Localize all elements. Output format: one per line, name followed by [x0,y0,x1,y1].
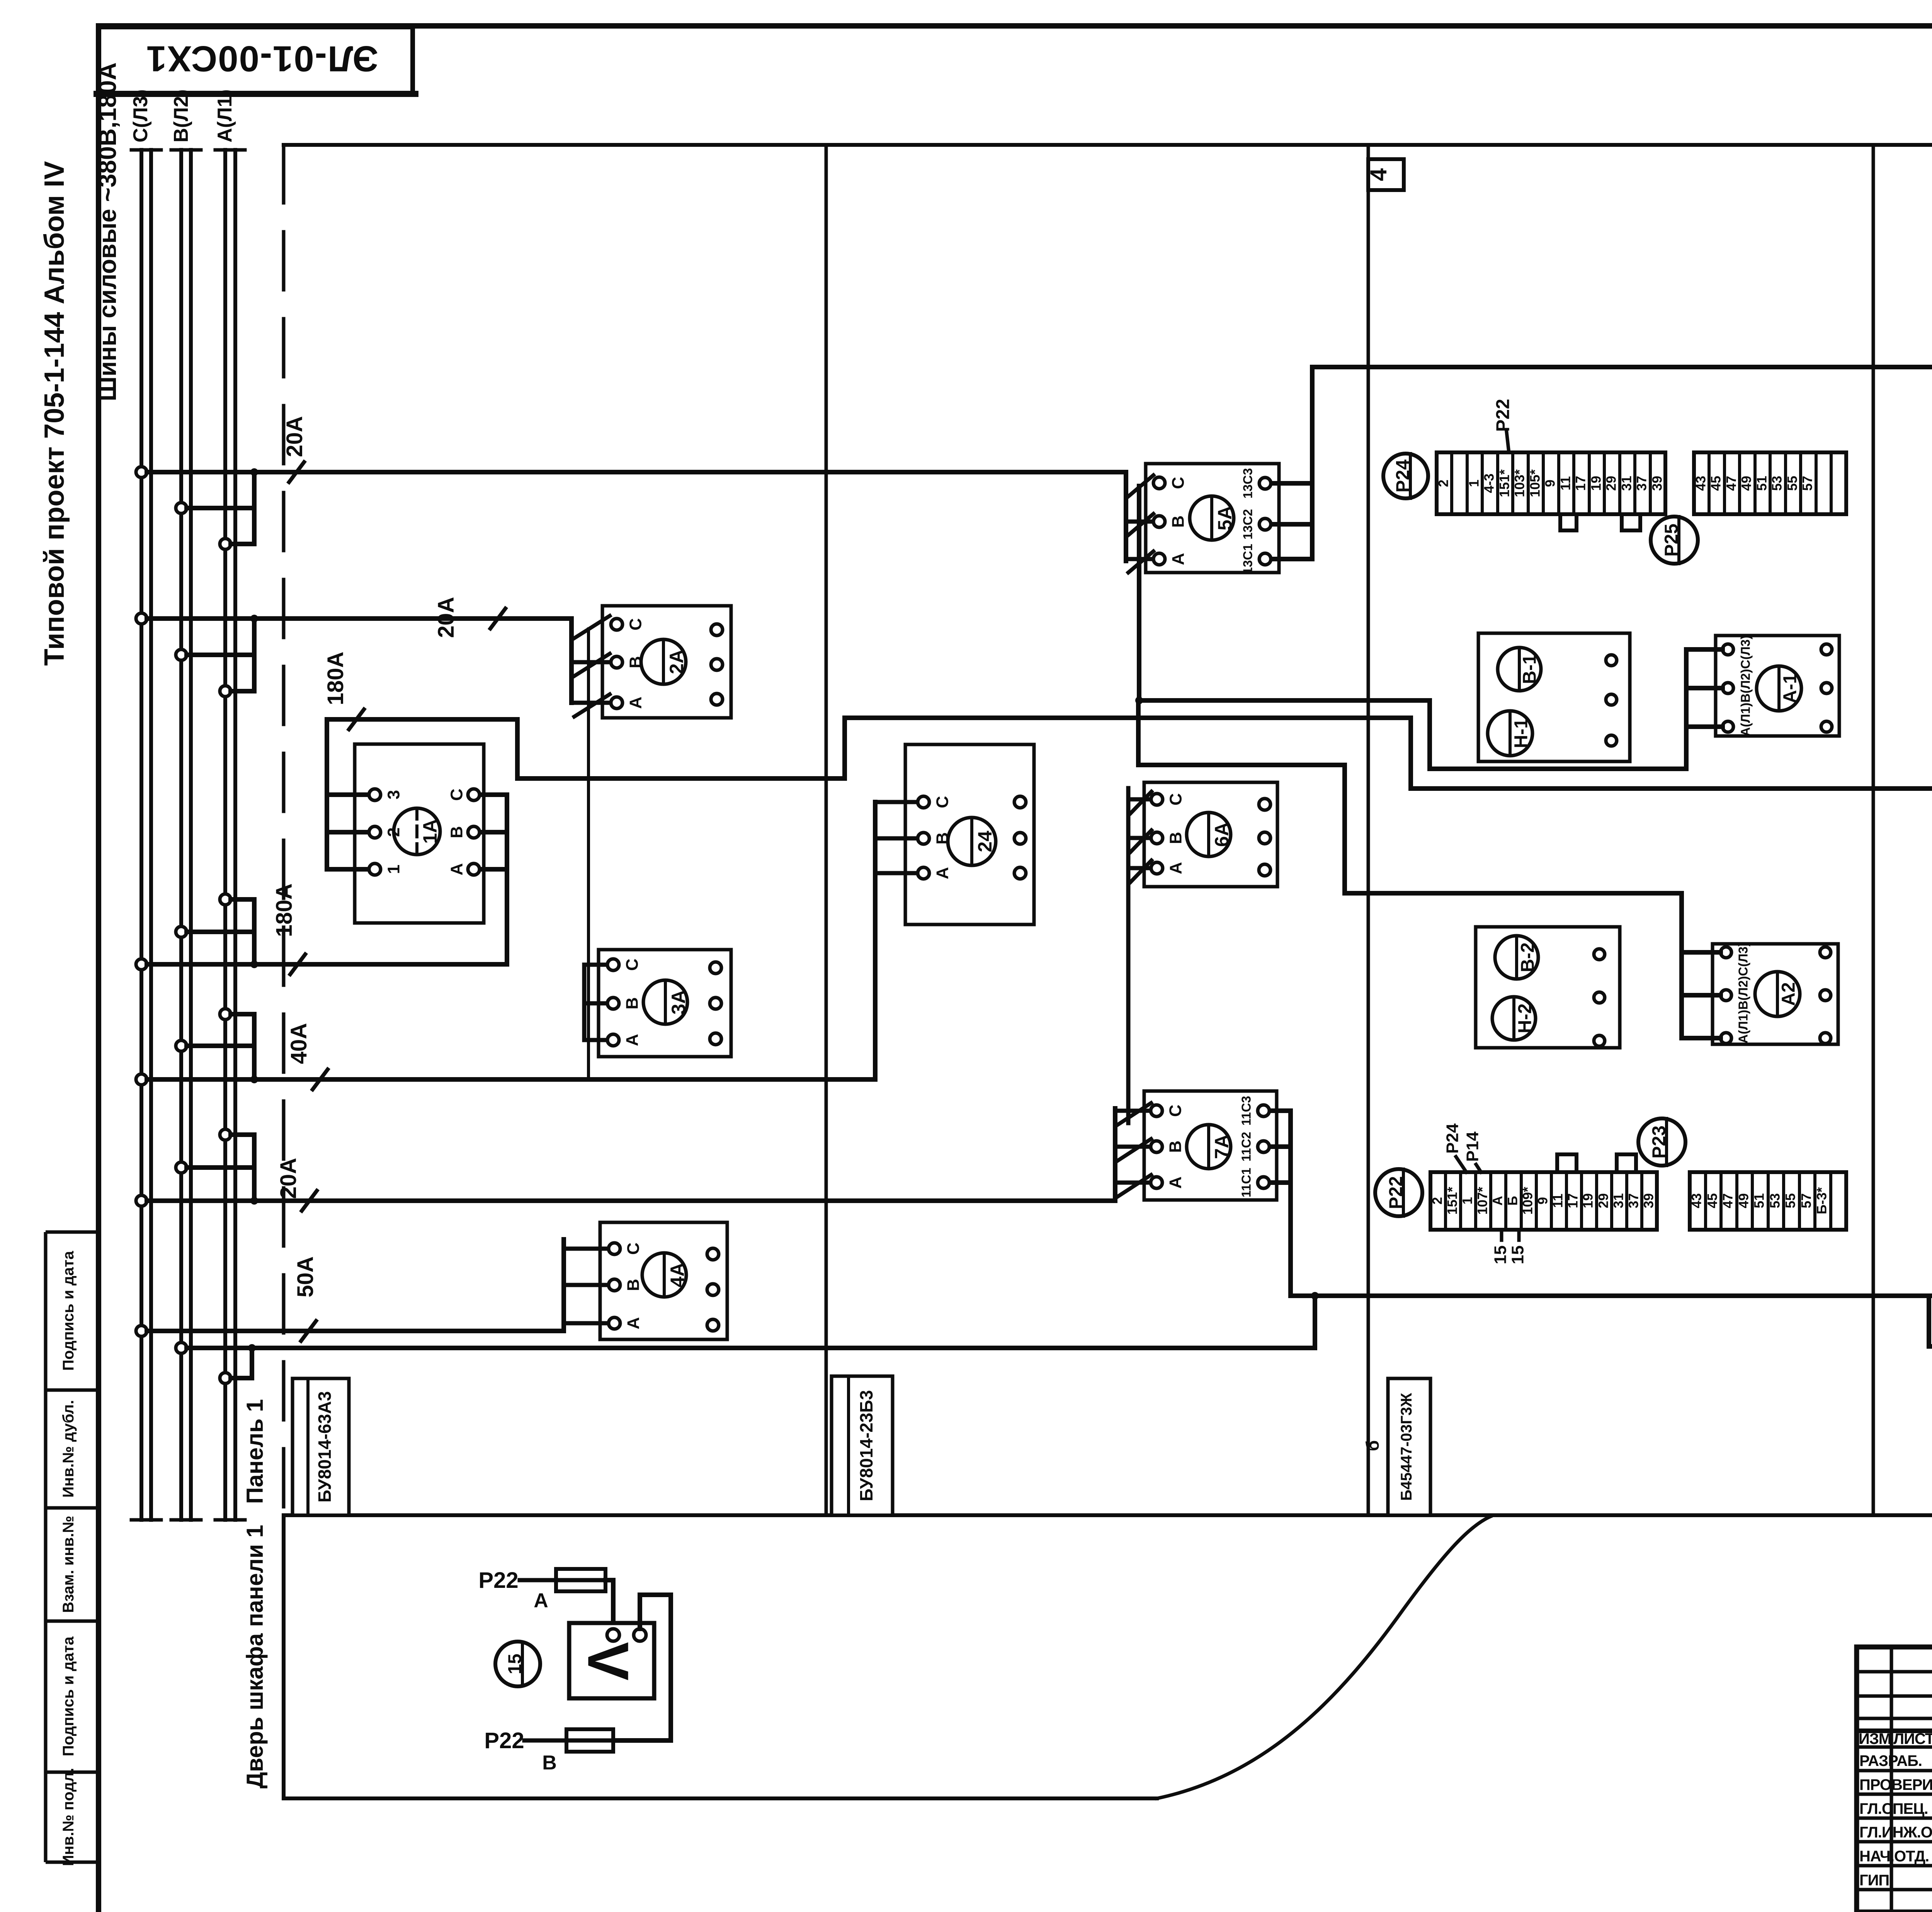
breaker 1А [355,744,484,923]
svg-text:151*: 151* [1497,469,1512,497]
svg-text:15: 15 [505,1654,526,1674]
svg-text:Р25: Р25 [1662,523,1682,556]
strip mounting tabs below strip row 1 [1560,514,1577,530]
svg-text:Р22: Р22 [484,1728,524,1753]
svg-text:20А: 20А [282,416,307,457]
svg-text:53: 53 [1767,1193,1782,1208]
dimension tick and label 20А (feeder 2) [489,607,507,630]
svg-text:А: А [534,1589,548,1612]
fuse Р22-В (door) [524,1729,613,1752]
panel enclosure outline (top, right, bottom solid; left dashed) [284,145,1932,1515]
svg-text:Р24: Р24 [1443,1123,1462,1154]
marker box 4 at divider 2 [1368,159,1404,190]
svg-text:1: 1 [1466,479,1481,487]
svg-text:20А: 20А [276,1158,301,1199]
wire: stubs 1А right terminals to 180А feeder riser [480,795,507,869]
svg-text:С: С [1169,477,1188,489]
tap group 3 (feeder 180А to 1А) [136,894,258,970]
svg-text:Типовой проект 705-1-144 Ал: Типовой проект 705-1-144 Альбом IV [39,161,70,666]
dimension tick and label 180А (1А output wire) [348,708,365,731]
svg-text:51: 51 [1752,1193,1767,1208]
wire: fuse А to voltmeter terminal [611,1580,616,1630]
strip row 2 cell numbers [1430,1187,1829,1215]
svg-text:С: С [1167,793,1185,806]
svg-text:Б: Б [1505,1196,1520,1205]
svg-text:105*: 105* [1527,469,1543,497]
svg-text:А(Л1)В(Л2)С(Л3): А(Л1)В(Л2)С(Л3) [1736,942,1750,1044]
svg-text:В: В [1166,1140,1185,1153]
breaker 4А [564,1222,727,1339]
balloon Р22 (lower strip) [1375,1169,1422,1216]
wire: 7А output stubs and collector [1270,1111,1291,1296]
svg-text:55: 55 [1785,476,1800,491]
svg-text:Р22: Р22 [1386,1176,1406,1209]
wire: net 11С run to terminal block 11С1-11С3 [1291,1293,1932,1298]
svg-text:НАЧ.ОТД.: НАЧ.ОТД. [1859,1848,1929,1865]
svg-text:45: 45 [1705,1193,1720,1208]
wire: feeder 40А from bus to breaker 2Д [147,802,875,1079]
tap group 1 (feeder 20А to 5А): circles on buses [136,467,258,549]
TITLE BLOCK [1857,1647,1932,1912]
svg-text:15: 15 [1491,1246,1510,1264]
svg-text:Р14: Р14 [1463,1131,1482,1162]
svg-text:19: 19 [1580,1193,1595,1208]
svg-text:40А: 40А [286,1023,311,1064]
label box Б45447-03Г3Ж [1388,1378,1430,1515]
svg-text:А: А [624,1317,643,1329]
dimension tick and label 20А (feeder 5) [301,1189,318,1212]
breaker 2А [571,606,731,718]
svg-text:Взам. инв.№: Взам. инв.№ [60,1516,77,1613]
balloon Р23 [1638,1118,1685,1166]
svg-text:б: б [1362,1440,1383,1451]
terminal strip row 1 left (P22 strip) [1437,452,1665,514]
leader lines for labels 15 15 (below lower strip) [1500,1230,1503,1240]
svg-text:20А: 20А [434,597,459,638]
title block texts [1859,1730,1932,1889]
svg-text:А: А [623,1034,642,1046]
svg-text:39: 39 [1650,476,1665,491]
dimension tick and label 40А (feeder 4) [311,1068,329,1091]
strip row 1 cell numbers [1436,469,1815,497]
svg-text:V: V [576,1642,641,1681]
label box БУ8014-23Б3 [832,1376,893,1515]
svg-text:А: А [933,867,952,879]
svg-text:2: 2 [1436,479,1451,487]
svg-text:А: А [1169,553,1188,565]
svg-text:ГЛ.СПЕЦ.: ГЛ.СПЕЦ. [1859,1800,1928,1817]
svg-text:В: В [1167,832,1185,844]
svg-text:Р23: Р23 [1649,1125,1670,1158]
svg-text:45: 45 [1708,476,1723,491]
svg-text:БУ8014-63А3: БУ8014-63А3 [315,1391,335,1502]
svg-text:43: 43 [1689,1193,1704,1208]
svg-text:9: 9 [1543,479,1558,487]
svg-text:57: 57 [1799,1193,1814,1208]
svg-text:С: С [1166,1105,1185,1117]
fuse Р22-А (door) [520,1569,613,1591]
svg-text:А: А [1490,1196,1505,1205]
svg-text:109*: 109* [1520,1187,1535,1215]
svg-text:9: 9 [1535,1197,1550,1204]
tap group 2 (feeder 20А to 2А) [136,613,258,697]
svg-text:А: А [1166,1176,1185,1189]
svg-text:Р24: Р24 [1393,459,1413,493]
svg-text:180А: 180А [323,652,348,705]
breaker 7А [1115,1091,1277,1200]
svg-text:17: 17 [1573,476,1588,491]
junction where voltmeter feeder joins net 11С [1311,1292,1319,1300]
svg-text:В: В [624,1279,643,1291]
wire: feeder 20А from bus to breaker 2А [147,619,571,703]
svg-text:29: 29 [1604,476,1619,491]
svg-text:13С3: 13С3 [1241,468,1255,499]
svg-text:Подпись и дата: Подпись и дата [60,1251,77,1371]
svg-text:ЛИСТ: ЛИСТ [1893,1730,1932,1747]
dimension tick and label 20А (feeder 1) [288,461,305,484]
wire: feeder 50А from bus to breaker 4А [561,1239,566,1331]
svg-text:53: 53 [1769,476,1784,491]
svg-text:57: 57 [1800,476,1815,491]
svg-text:3: 3 [384,790,403,799]
wire: voltmeter to fuse В loop [613,1595,671,1740]
svg-text:1А: 1А [419,819,441,844]
balloon Р25 [1651,517,1698,564]
svg-text:Н-1: Н-1 [1511,718,1532,748]
svg-text:37: 37 [1626,1193,1641,1208]
svg-text:С: С [624,1242,643,1255]
svg-text:43: 43 [1693,476,1708,491]
svg-text:13С1: 13С1 [1241,544,1255,574]
leader lines for labels Р24 and Р14 (lower strip) [1456,1157,1466,1172]
wire: 5А output stubs and collector [1272,367,1312,559]
wire: 1А output run to terminal 1 (via jogs) [327,718,1932,789]
svg-text:С(Л3): С(Л3) [129,89,152,143]
svg-text:Инв.№ дубл.: Инв.№ дубл. [60,1400,77,1498]
svg-text:РАЗРАБ.: РАЗРАБ. [1859,1752,1922,1769]
label box БУ8014-63А3 [293,1378,349,1515]
svg-text:151*: 151* [1445,1187,1460,1215]
svg-text:А2: А2 [1779,982,1799,1006]
svg-text:Р22: Р22 [478,1568,518,1593]
svg-text:В-1: В-1 [1520,654,1540,684]
svg-text:В: В [623,997,642,1010]
contactor В-1 / Н-1 block [1478,633,1630,761]
svg-text:50А: 50А [293,1256,318,1297]
svg-text:ПРОВЕРИЛ: ПРОВЕРИЛ [1859,1776,1932,1793]
tap group 7 (two-wire tap В/А for voltmeter circuit) [176,1343,256,1383]
svg-text:Б45447-03Г3Ж: Б45447-03Г3Ж [1398,1393,1415,1501]
svg-text:А(Л1)В(Л2)С(Л3): А(Л1)В(Л2)С(Л3) [1738,635,1753,736]
svg-text:Подпись и дата: Подпись и дата [60,1636,77,1756]
svg-text:51: 51 [1754,476,1769,491]
svg-text:ГЛ.ИНЖ.ОТД: ГЛ.ИНЖ.ОТД [1859,1824,1932,1841]
svg-text:39: 39 [1641,1193,1656,1208]
svg-text:С: С [933,796,952,808]
breaker 6А [1128,782,1277,1123]
contactor В-2 / Н-2 block [1476,927,1620,1048]
svg-text:А-1: А-1 [1780,673,1801,703]
svg-text:Н-2: Н-2 [1515,1003,1536,1033]
svg-text:С: С [623,959,642,971]
svg-text:В-2: В-2 [1518,942,1538,972]
svg-text:А(Л1): А(Л1) [214,89,236,143]
svg-text:Инв.№ подл.: Инв.№ подл. [60,1768,77,1866]
svg-text:15: 15 [1509,1246,1527,1264]
device А2 [1713,944,1838,1044]
terminal strip row 1 right [1694,452,1846,514]
wire: drop from 5А fan down to staircase junction [1137,486,1141,700]
svg-text:11С3: 11С3 [1239,1096,1253,1125]
dimension tick and label 180А (feeder 3) [289,953,306,976]
tap group 6 (feeder 50А to 4А) [136,1326,564,1336]
balloon 15 (door voltmeter item) [495,1642,540,1686]
wire: net 13С run to terminal block 13С1-13С3 [1312,365,1932,369]
svg-text:ЭЛ-01-00СХ1: ЭЛ-01-00СХ1 [146,39,378,79]
wire: thin drop from 2А fan down to 40А feeder [587,629,590,1079]
voltmeter V (door) [569,1623,654,1698]
tap group 4 (feeder 40А to 2Д) [136,1009,258,1085]
svg-text:Р22: Р22 [1493,399,1514,432]
breaker 5А [1126,464,1279,573]
svg-text:103*: 103* [1512,469,1527,497]
svg-text:5А: 5А [1214,506,1236,530]
svg-text:А: А [1167,862,1185,874]
wire: feeder 180А from bus to breaker 1А right side [147,795,507,964]
terminal strip row 2 right [1690,1172,1846,1230]
svg-text:БУ8014-23Б3: БУ8014-23Б3 [856,1390,876,1501]
svg-text:Панель 1: Панель 1 [242,1399,268,1504]
wire: feeder 20А from bus to breaker 5А [147,472,1126,561]
svg-text:Шины силовые ~380В,180А: Шины силовые ~380В,180А [94,62,121,401]
svg-text:С: С [447,789,466,801]
svg-text:47: 47 [1720,1193,1735,1208]
svg-text:2А: 2А [666,649,687,674]
terminal strip row 2 left (P22 strip) [1430,1172,1657,1230]
tap group 5 (feeder 20А to 7А) [136,1129,258,1206]
svg-text:31: 31 [1611,1193,1626,1208]
breaker 2Д [875,744,1034,925]
sheet frame top line [99,23,1932,29]
wire: bracket into 11С2 and 11С1 [1929,1296,1932,1346]
wire: 1А output collector (terminals 3-2-1) [327,719,368,869]
wire: staircase to А2 [1138,765,1721,1038]
bus B(Л2) pair of vertical lines [171,150,201,1520]
sheet frame left line [96,26,101,1912]
svg-text:ГИП: ГИП [1859,1872,1889,1889]
bus C(Л3) pair of vertical lines [131,150,161,1520]
svg-text:55: 55 [1783,1193,1798,1208]
svg-text:2: 2 [1430,1197,1445,1204]
svg-text:17: 17 [1565,1193,1580,1208]
svg-text:37: 37 [1634,476,1649,491]
panel section divider 3 [1872,145,1875,1515]
svg-text:4-3: 4-3 [1481,474,1497,493]
svg-text:4А: 4А [667,1263,688,1287]
svg-text:С: С [626,618,645,631]
svg-text:6А: 6А [1211,822,1233,847]
balloon Р24 [1383,454,1428,498]
svg-text:11С2: 11С2 [1239,1132,1253,1161]
breaker 3А [584,950,731,1057]
svg-text:В: В [626,656,645,668]
svg-text:13С2: 13С2 [1241,509,1255,540]
svg-text:7А: 7А [1211,1134,1233,1159]
svg-text:В: В [1169,515,1188,528]
wire: feeder 20А from bus to breaker 7А [147,1108,1115,1201]
svg-text:А: А [447,863,466,875]
panel section divider 1 [825,145,828,1515]
svg-text:31: 31 [1619,476,1634,491]
svg-text:107*: 107* [1475,1187,1490,1215]
leader line for label Р22 (upper strip) [1507,432,1509,452]
svg-text:В: В [447,826,466,838]
svg-text:4: 4 [1366,168,1391,181]
svg-text:В: В [542,1752,557,1774]
svg-text:11: 11 [1550,1194,1565,1208]
svg-text:49: 49 [1739,476,1754,491]
strip mounting tabs above strip row 2 [1557,1154,1577,1172]
svg-text:11С1: 11С1 [1239,1168,1253,1197]
svg-text:3А: 3А [668,990,689,1015]
svg-text:19: 19 [1588,476,1604,491]
device А-1 [1716,636,1839,736]
wire: staircase from 6А to А-1 [1138,649,1723,769]
svg-text:В(Л2): В(Л2) [170,89,192,143]
svg-text:49: 49 [1736,1193,1751,1208]
svg-text:24: 24 [974,831,996,852]
svg-text:А: А [626,697,645,709]
door region outline (дверь шкафа панели 1) [284,1515,1491,1798]
dimension tick and label 50А (feeder 6) [300,1319,317,1343]
svg-text:1: 1 [384,865,403,874]
svg-text:Б-3*: Б-3* [1814,1187,1829,1214]
svg-text:В: В [933,832,952,845]
svg-text:Дверь шкафа панели 1: Дверь шкафа панели 1 [242,1525,268,1789]
left margin cells (Подпись и дата / Инв.№ дубл. / Взам. инв.№ / Подпись и дата / Инв.№ подл.) [46,1232,99,1862]
svg-text:29: 29 [1596,1193,1611,1208]
svg-text:11: 11 [1558,476,1573,491]
svg-text:2: 2 [384,828,403,837]
wire: net 11C voltmeter feeder along bottom [187,1296,1315,1348]
panel section divider 2 [1367,145,1370,1515]
bus A(Л1) pair of vertical lines [215,150,245,1520]
svg-text:ИЗМ: ИЗМ [1859,1730,1891,1747]
stamp box ЭЛ-01-00СХ1 (top left, text upside down) [97,27,415,94]
svg-text:47: 47 [1724,476,1739,491]
svg-text:1: 1 [1460,1197,1475,1204]
